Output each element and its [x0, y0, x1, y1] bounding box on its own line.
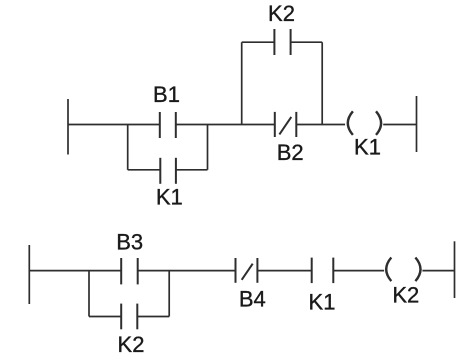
wire B3 to B4 [138, 270, 236, 272]
wire branch1 bottom right [176, 169, 208, 171]
coil K1 [348, 111, 381, 135]
contact K1 (rung 2) [312, 258, 334, 284]
contact B2 (NC) [275, 112, 297, 137]
wire branch3 bottom left [89, 316, 121, 318]
coil K2 [386, 258, 420, 282]
svg-text:K1: K1 [354, 135, 381, 160]
svg-text:B3: B3 [116, 230, 143, 255]
contact B4 (NC) [236, 258, 258, 283]
wire B4 to K1 [257, 270, 311, 272]
svg-text:B1: B1 [153, 82, 180, 107]
svg-text:B4: B4 [239, 286, 266, 311]
contact K2 (branch rung 2) [121, 304, 137, 330]
left rail (rung 1) [67, 99, 69, 155]
wire K1 to coil K2 [333, 270, 384, 272]
wire branch3 left vertical [88, 271, 90, 317]
wire rung2 rail to B3 [29, 270, 121, 272]
wire branch1 right vertical [207, 125, 209, 170]
wire branch2 right vertical [321, 42, 323, 124]
wire branch3 bottom right [137, 316, 169, 318]
wire branch2 left vertical [241, 42, 243, 124]
wire branch1 left vertical [127, 125, 129, 170]
contact B1 [160, 112, 176, 138]
contact K1 (branch rung 1) [160, 158, 176, 184]
left rail (rung 2) [28, 245, 30, 304]
wire branch2 top left [242, 41, 275, 43]
wire coil K2 to right rail [422, 270, 454, 272]
svg-text:K2: K2 [392, 282, 419, 307]
right rail (rung 2) [454, 241, 456, 298]
wire B1 to B2 [176, 124, 275, 126]
wire B2 to coil K1 [296, 124, 345, 126]
svg-text:K2: K2 [268, 1, 295, 26]
wire coil K1 to right rail [383, 124, 416, 126]
svg-text:K1: K1 [309, 289, 336, 314]
contact B3 [121, 258, 138, 284]
wire rung1 rail to B1 [68, 124, 160, 126]
contact K2 (branch rung 1) [274, 29, 290, 55]
wire branch1 bottom left [128, 169, 161, 171]
svg-text:K2: K2 [118, 332, 145, 357]
right rail (rung 1) [416, 96, 418, 152]
wire branch3 right vertical [168, 271, 170, 317]
svg-text:K1: K1 [156, 184, 183, 209]
svg-text:B2: B2 [277, 140, 304, 165]
wire branch2 top right [291, 41, 323, 43]
